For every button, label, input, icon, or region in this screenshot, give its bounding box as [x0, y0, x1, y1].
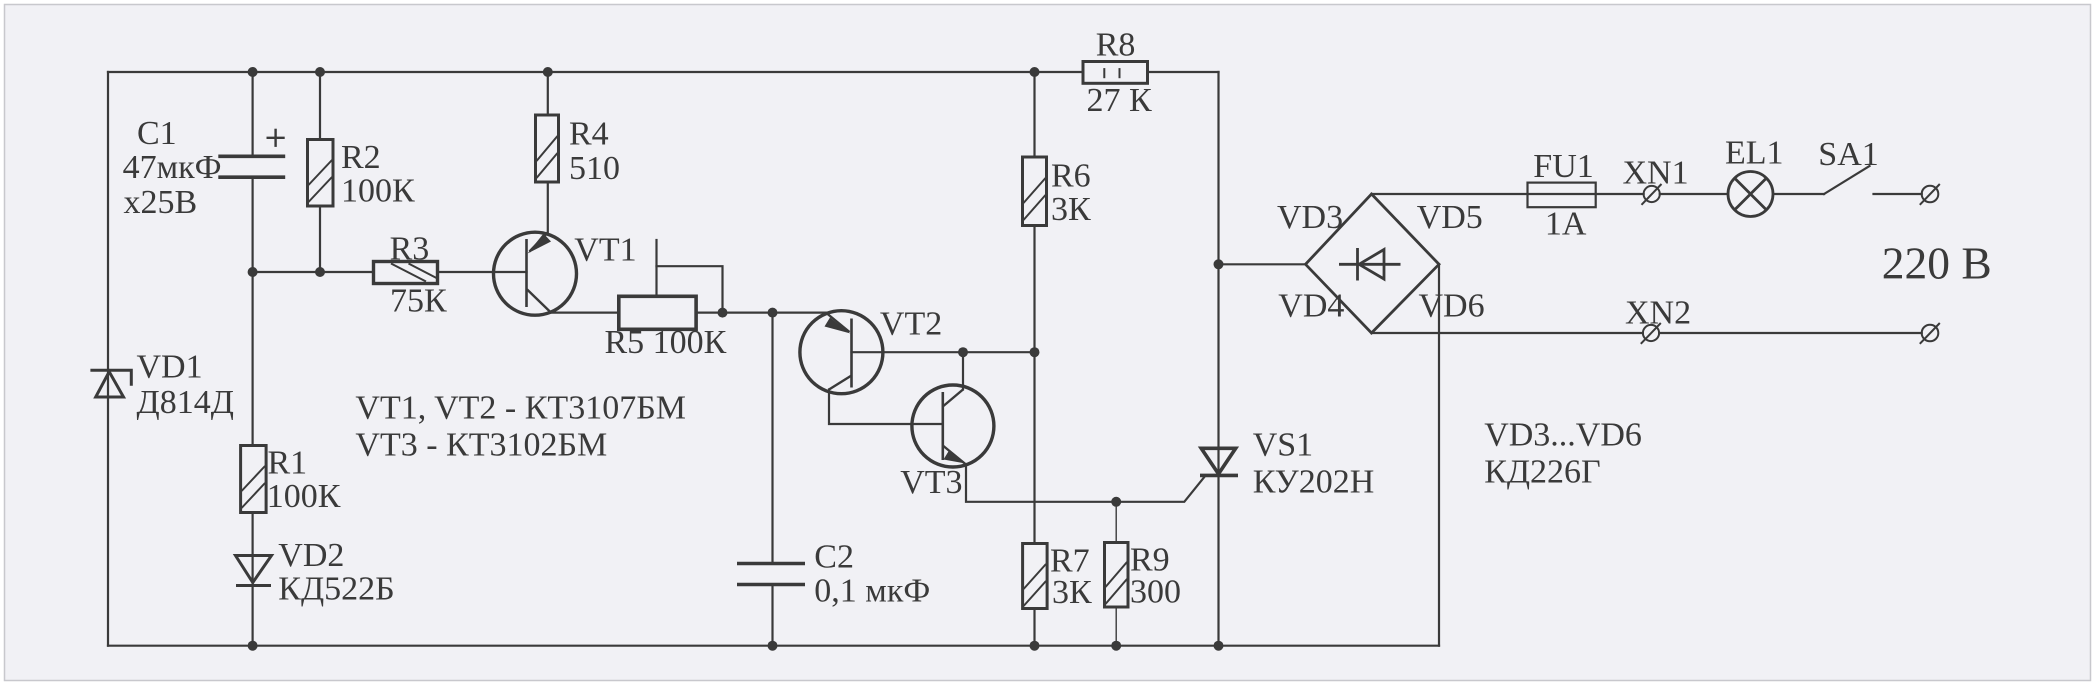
svg-text:VD5: VD5 — [1417, 199, 1483, 236]
svg-text:220 В: 220 В — [1882, 238, 1992, 289]
svg-text:КД522Б: КД522Б — [278, 571, 394, 608]
svg-text:КД226Г: КД226Г — [1484, 454, 1601, 491]
svg-text:VD4: VD4 — [1278, 288, 1344, 325]
svg-text:Д814Д: Д814Д — [137, 384, 234, 421]
svg-text:SA1: SA1 — [1818, 136, 1878, 173]
svg-text:R1: R1 — [268, 445, 308, 482]
svg-text:C2: C2 — [814, 539, 854, 576]
svg-text:VD3: VD3 — [1277, 199, 1343, 236]
svg-text:27 К: 27 К — [1087, 82, 1153, 119]
svg-text:XN2: XN2 — [1625, 295, 1691, 332]
svg-text:VD3...VD6: VD3...VD6 — [1484, 417, 1642, 454]
svg-text:R5 100К: R5 100К — [605, 324, 727, 361]
svg-text:VT1, VT2 - КТ3107БМ: VT1, VT2 - КТ3107БМ — [355, 390, 686, 427]
svg-text:VT3 - КТ3102БМ: VT3 - КТ3102БМ — [355, 427, 607, 464]
svg-text:VD2: VD2 — [278, 537, 344, 574]
svg-text:100К: 100К — [341, 173, 415, 210]
svg-text:VT2: VT2 — [880, 306, 942, 343]
svg-text:EL1: EL1 — [1725, 135, 1784, 172]
svg-text:510: 510 — [569, 150, 620, 187]
svg-text:FU1: FU1 — [1533, 148, 1593, 185]
svg-text:75К: 75К — [390, 283, 447, 320]
svg-text:3К: 3К — [1052, 574, 1092, 611]
svg-text:R2: R2 — [341, 139, 381, 176]
svg-text:0,1 мкФ: 0,1 мкФ — [814, 573, 930, 610]
svg-text:R3: R3 — [390, 231, 430, 268]
svg-text:100К: 100К — [267, 478, 341, 515]
svg-text:1A: 1A — [1545, 206, 1587, 243]
svg-text:C1: C1 — [137, 115, 177, 152]
svg-text:VD1: VD1 — [137, 349, 203, 386]
svg-text:VT1: VT1 — [574, 232, 636, 269]
svg-text:R6: R6 — [1051, 158, 1091, 195]
svg-text:R8: R8 — [1096, 27, 1136, 64]
svg-text:КУ202Н: КУ202Н — [1253, 464, 1375, 501]
svg-text:R4: R4 — [569, 116, 609, 153]
svg-text:VD6: VD6 — [1419, 288, 1485, 325]
svg-text:XN1: XN1 — [1623, 155, 1689, 192]
svg-text:300: 300 — [1130, 574, 1181, 611]
svg-text:47мкФ: 47мкФ — [123, 149, 222, 186]
svg-text:VS1: VS1 — [1253, 427, 1313, 464]
svg-text:х25В: х25В — [124, 184, 198, 221]
svg-text:3К: 3К — [1051, 191, 1091, 228]
svg-text:VT3: VT3 — [900, 464, 962, 501]
